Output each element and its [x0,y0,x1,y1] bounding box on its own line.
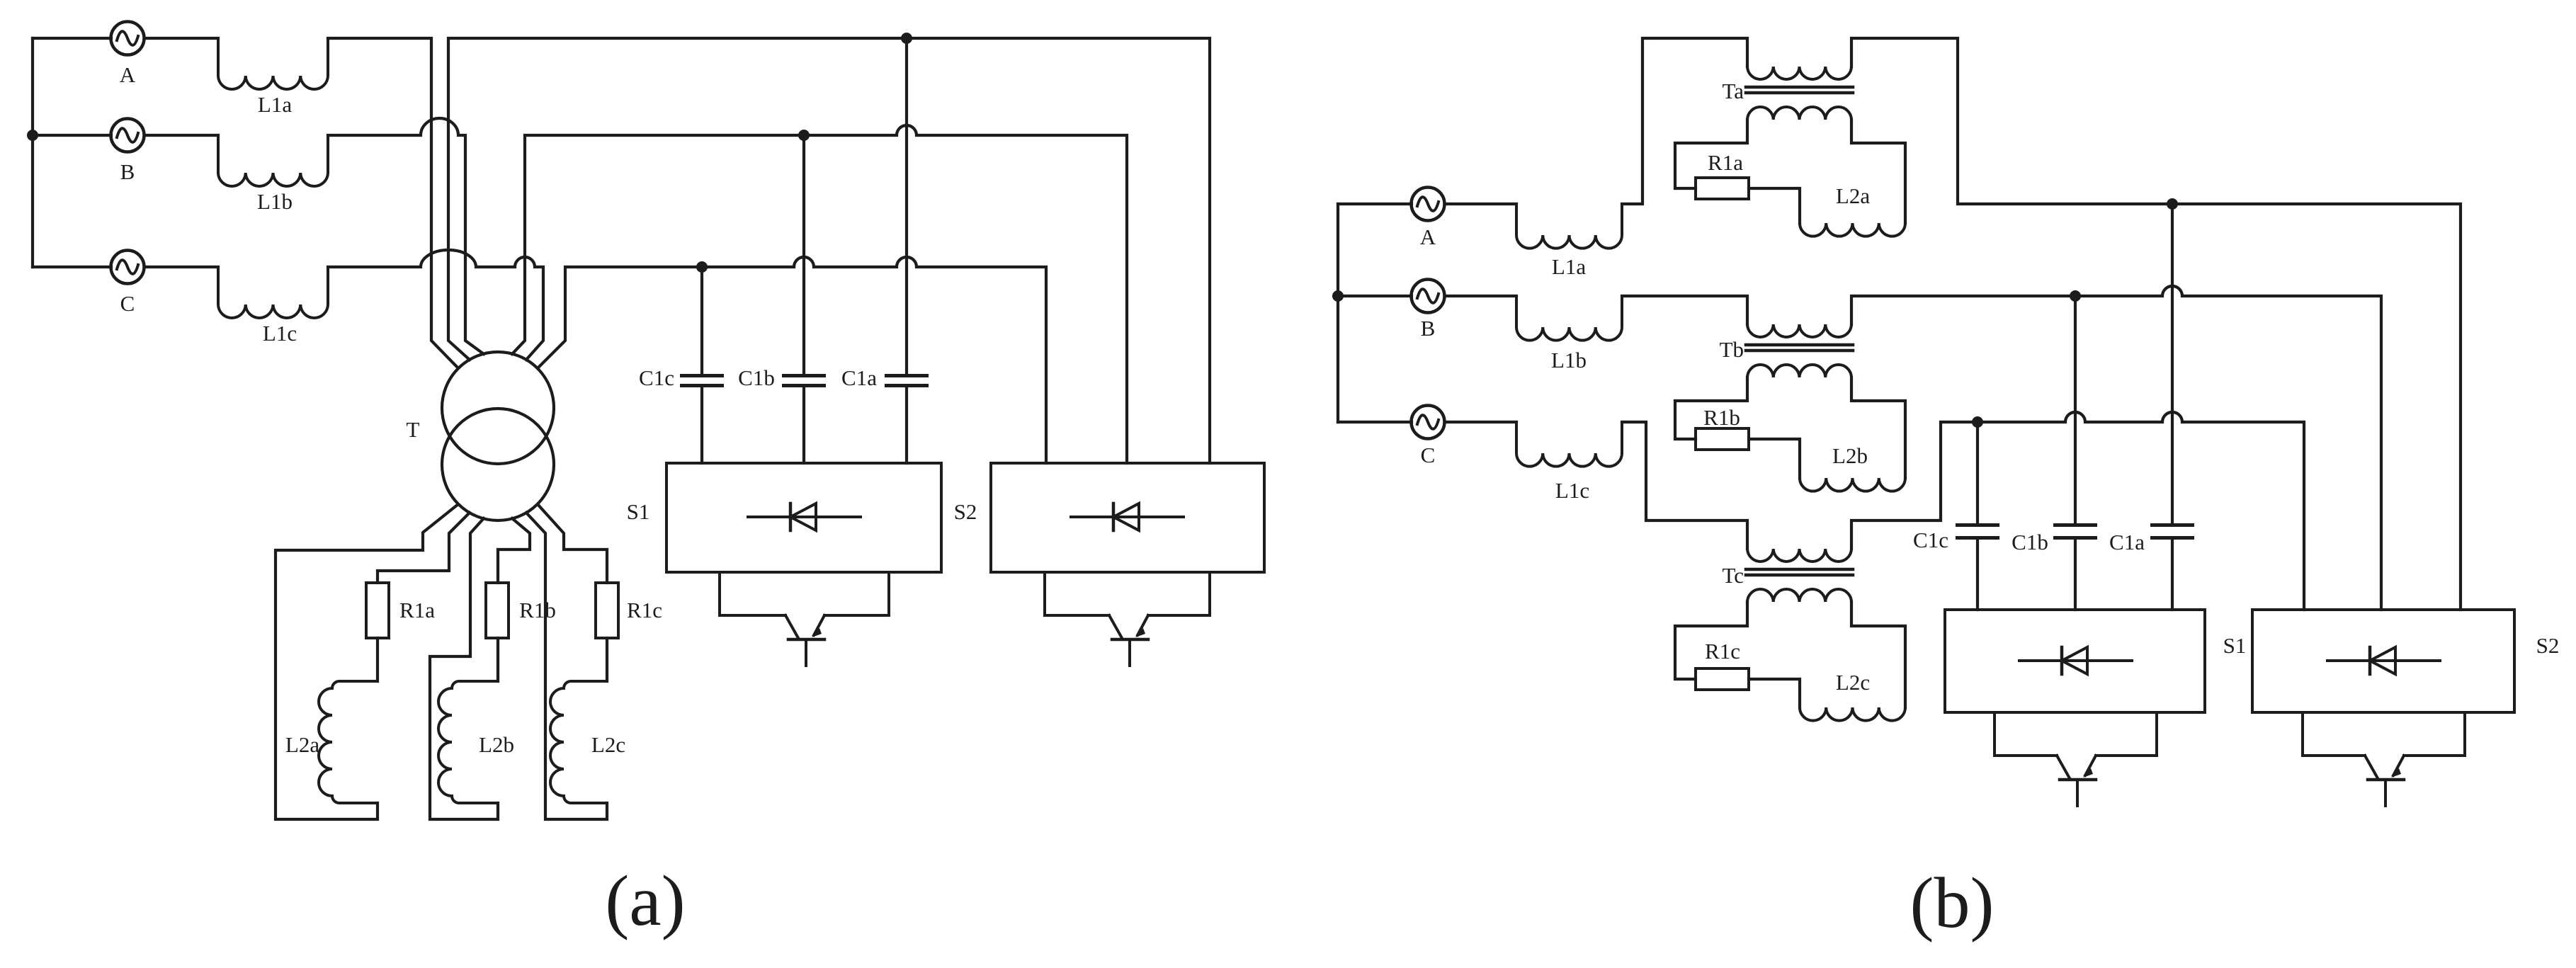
svg-text:R1b: R1b [519,598,556,622]
node: junction top bus / C1a (a) [901,33,912,44]
capacitor C1b (a) [802,135,805,374]
resistor R1a (a) [366,583,389,638]
svg-text:S2: S2 [2536,633,2560,658]
svg-text:L2b: L2b [479,732,514,757]
wire: Tc primary out to C bus with hops over C1b and C1a (b) [1851,412,2304,610]
transformer Tb primary winding (b) [1747,324,1851,337]
transformer Ta core bars (b) [1746,87,1853,93]
svg-text:L2c: L2c [591,732,625,757]
diode inside S1 (b) [2019,659,2132,662]
wire: phase B row (b) [1338,295,1516,297]
resistor R1a (b) [1696,178,1749,199]
svg-text:C1c: C1c [639,365,674,390]
transformer Tc primary winding (b) [1747,549,1851,562]
transformer Tb secondary winding (b) [1747,365,1851,377]
svg-text:S1: S1 [2223,633,2247,658]
transformer T (a) [442,352,554,464]
transformer Tc secondary winding (b) [1747,589,1851,602]
inductor L1a (b) [1516,204,1622,249]
capacitor C1c (a) [700,267,703,374]
svg-text:L1a: L1a [258,92,292,117]
wire: R1b to L2b (b) [1749,439,1800,478]
inductor L1b (b) [1516,296,1622,341]
wire: phase A row (a) [33,37,218,40]
switch S2 box (a) [991,463,1264,572]
AC source B (a) [111,119,144,152]
wire: R1a to L2a (b) [1749,188,1800,223]
wire: L2b top to R1b bottom (a) [497,638,499,681]
wire: Tb secondary left to R1b (b) [1675,377,1747,439]
wire: Tb primary out to B bus with hop over C1a (b) [1851,286,2381,610]
inductor L2b (b) [1800,478,1905,491]
capacitor C1a (b) [2171,204,2174,523]
capacitor C1b (b) [2074,296,2077,523]
transistor below S1 (a) [720,572,785,615]
wire: C bus from transformer lead 6 to S2, hops over C1b and C1a (a) [538,257,1046,463]
node: junction B bus / C1b (b) [2070,290,2081,302]
diode inside S1 (a) [748,516,861,518]
wire: L2b back to Tb secondary right (b) [1851,377,1905,478]
wire: B bus from transformer lead 4 to S2, hop over C1a (a) [512,125,1127,463]
svg-text:L1a: L1a [1552,254,1586,279]
resistor R1c (a) [596,583,618,638]
svg-text:L2a: L2a [285,732,319,757]
svg-text:R1c: R1c [1705,639,1740,664]
node: junction A bus / C1a (b) [2167,198,2178,210]
wire: L2c back to Tc secondary right (b) [1851,602,1905,707]
svg-text:S1: S1 [627,499,650,524]
wire: neutral bus left rail (b) [1337,204,1339,422]
svg-text:(b): (b) [1910,863,1995,943]
AC source C (a) [111,251,144,284]
AC source A (a) [111,22,144,55]
svg-text:C: C [1421,443,1436,467]
wire: Ta secondary left to R1a (b) [1675,120,1747,188]
wire: L2a back to Ta secondary right (b) [1851,120,1905,223]
svg-text:C1c: C1c [1913,528,1948,552]
transformer Ta secondary winding (b) [1747,107,1851,120]
svg-text:B: B [1421,316,1436,341]
transistor below S1 (b) [1995,712,2057,756]
wire: secondary lead 5 and L2c loop frame (a) [526,513,607,819]
svg-text:T: T [407,417,420,442]
svg-text:R1a: R1a [399,598,435,622]
diode inside S2 (a) [1071,516,1184,518]
transformer Tb core bars (b) [1746,345,1853,351]
AC source C (b) [1412,406,1445,439]
resistor R1b (b) [1696,428,1749,450]
wire: Ta primary out to A bus (b) [1851,38,2461,610]
wire: L2a top to R1a bottom (a) [376,638,379,681]
resistor R1b (a) [486,583,509,638]
svg-text:C1b: C1b [2012,530,2048,554]
capacitor C1a (a) [905,38,908,374]
svg-text:A: A [1420,224,1436,249]
switch S2 box (b) [2252,610,2514,712]
wire: phase B to Tb primary (b) [1622,296,1747,324]
svg-text:(a): (a) [605,861,685,941]
AC source A (b) [1412,188,1445,221]
svg-text:C1a: C1a [841,365,877,390]
svg-text:A: A [120,62,136,87]
wire: phase C row (a) [33,266,218,268]
inductor L1c (b) [1516,422,1622,467]
svg-text:L1c: L1c [263,321,297,346]
wire: top bus from transformer lead 2 to S2 (a) [448,38,1210,463]
node: junction C bus / C1c (b) [1972,416,1983,428]
wire: phase B with hop to transformer lead 3 (a) [328,118,484,354]
svg-text:L2a: L2a [1836,183,1870,208]
wire: secondary lead 3 and L2b loop frame (a) [430,518,498,819]
svg-text:B: B [120,159,135,184]
svg-text:L1b: L1b [1551,348,1587,372]
wire: R1b top to secondary lead 4 (a) [498,518,530,583]
svg-text:C1b: C1b [738,365,775,390]
svg-text:L2b: L2b [1832,443,1868,468]
wire: neutral bus left rail (a) [31,38,34,267]
svg-text:Tc: Tc [1722,563,1744,588]
inductor L1c (a) [218,267,328,318]
inductor L2c (b) [1800,707,1905,721]
inductor L1b (a) [218,135,328,186]
wire: R1a top to secondary lead 2 (a) [378,513,470,583]
svg-text:S2: S2 [954,499,977,524]
svg-text:L2c: L2c [1836,670,1870,695]
node: neutral junction on rail (b) [1332,290,1344,302]
wire: Tc secondary left to R1c (b) [1675,602,1747,679]
wire: phase C row (b) [1338,421,1516,423]
svg-text:R1c: R1c [627,598,662,622]
wire: phase A to transformer lead 1 (a) [328,38,458,368]
inductor L1a (a) [218,38,328,89]
inductor L2a (a) [319,681,378,803]
transistor below S2 (a) [1045,572,1109,615]
transformer Ta primary winding (b) [1747,67,1851,79]
inductor L2a (b) [1800,223,1905,237]
svg-text:L1c: L1c [1555,478,1589,503]
wire: R1c top to secondary lead 6 (a) [538,504,607,583]
AC source B (b) [1412,280,1445,313]
svg-text:Tb: Tb [1720,337,1744,362]
svg-text:Ta: Ta [1722,79,1744,103]
capacitor C1c (b) [1976,422,1979,523]
node: junction C bus / C1c (a) [696,261,708,273]
svg-text:C: C [120,291,135,316]
svg-text:R1a: R1a [1708,150,1743,175]
transformer Tc core bars (b) [1746,569,1853,575]
wire: secondary lead 1 and L2a loop frame (a) [276,504,458,819]
diode inside S2 (b) [2327,659,2440,662]
node: junction B bus / C1b (a) [798,130,810,141]
wire: phase C with hops to transformer lead 5 (a) [328,250,543,360]
wire: L2c top to R1c bottom (a) [606,638,608,681]
switch S1 box (a) [666,463,941,572]
resistor R1c (b) [1696,668,1749,690]
svg-text:L1b: L1b [257,189,293,214]
svg-text:C1a: C1a [2109,530,2145,554]
wire: phase C down to Tc primary (b) [1622,422,1747,549]
transistor below S2 (b) [2303,712,2365,756]
switch S1 box (b) [1945,610,2205,712]
svg-text:R1b: R1b [1703,405,1740,430]
inductor L2b (a) [438,681,498,803]
wire: phase B row (a) [33,134,218,137]
inductor L2c (a) [550,681,607,803]
wire: R1c to L2c (b) [1749,679,1800,707]
wire: phase A row (b) [1338,203,1516,205]
wire: phase A up to Ta primary (b) [1622,38,1747,204]
node: neutral junction on rail (a) [27,130,38,141]
